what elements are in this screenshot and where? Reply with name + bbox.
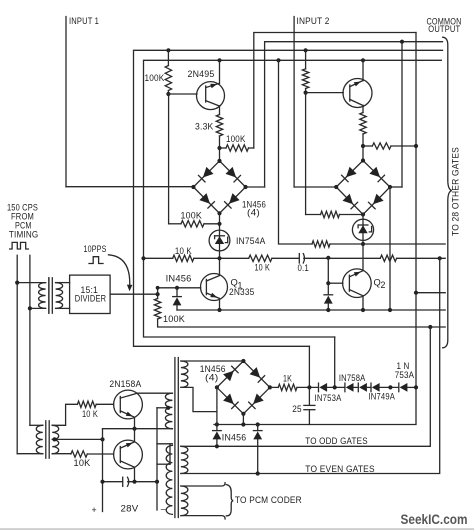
wire to even gates line — [181, 258, 440, 473]
wire emitter return line y=481.7 — [103, 481, 123, 483]
wire Q4 emitter down — [134, 467, 136, 481]
wire Q2 collector down to bus310 — [362, 296, 364, 310]
wire drop bus41 to bridge2 right vertex — [401, 42, 403, 187]
wire Q1 emitter to bus310 — [219, 299, 221, 310]
winding T4 primary left — [166, 445, 172, 514]
wire Q2 emitter up to bus244 — [362, 244, 364, 271]
wire INPUT 2 horizontal to bridge — [294, 186, 336, 188]
resistor collector load T2 — [360, 113, 366, 135]
diode bridge2 top-left — [346, 167, 357, 178]
junction bus41/x402 — [400, 40, 404, 44]
wire bus y=50.3 base resistors, left corner down to y=346 — [134, 50, 443, 346]
diode 1N456 to odd gates — [216, 425, 218, 431]
wire Q2 base drop from bus258 — [327, 258, 329, 295]
winding secondary to bridge3 — [181, 361, 188, 387]
svg-text:10 K: 10 K — [255, 263, 271, 273]
diode bridge 2 quad edges — [336, 161, 390, 215]
diode 1N456 at Q2 base — [324, 294, 333, 296]
winding to pcm coder — [181, 486, 188, 516]
wire Q2 base line — [328, 282, 343, 284]
wire Q3 collector to winding top — [137, 392, 173, 394]
wire Q3 emitter down — [134, 417, 136, 428]
wire Q4 collector up — [134, 429, 136, 442]
wire secondary bottom to 10K — [52, 453, 71, 455]
svg-text:2N158A: 2N158A — [109, 379, 141, 389]
junction bus50/100K-1 — [166, 48, 170, 52]
svg-text:2: 2 — [381, 280, 386, 290]
diode IN758A pair a — [346, 383, 354, 392]
junction Q4 emitter on return — [132, 480, 136, 484]
junction base node T1 — [166, 92, 170, 96]
resistor 10K left on bus258 — [173, 255, 194, 261]
transistor 2N495 T1 left — [197, 82, 225, 110]
diode IN758A pair b — [359, 383, 367, 392]
wire bus y=244 zener return — [279, 60, 313, 244]
svg-text:10PPS: 10PPS — [84, 244, 107, 254]
svg-text:TO PCM CODER: TO PCM CODER — [235, 495, 302, 505]
resistor 100K bridge1 bottom from base node — [168, 94, 170, 224]
capacitor 28V filter — [122, 477, 124, 486]
wire secondary center tap to + rail — [52, 438, 102, 440]
symbol pulse 10pps — [89, 257, 103, 264]
svg-text:IN753A: IN753A — [315, 393, 342, 403]
diode bridge2 bottom-right — [373, 194, 384, 205]
wire pcm bottom with hook — [181, 516, 225, 519]
junction even/diode — [256, 471, 260, 475]
border bottom scan line — [0, 528, 474, 529]
wire to odd gates line — [181, 327, 430, 446]
transistor Q1 2N335 — [201, 274, 228, 301]
diode 1N456 to even gates — [257, 425, 259, 431]
svg-text:DIVIDER: DIVIDER — [75, 294, 107, 304]
diode bridge1 top-right — [226, 167, 237, 178]
resistor 10K Q4 base — [71, 451, 87, 457]
svg-text:10 K: 10 K — [175, 246, 192, 256]
junction zener1/Q1 collector — [217, 256, 221, 260]
wire base riser and base line Q1 — [158, 288, 201, 294]
wire brace to 28 other gates — [443, 37, 452, 348]
wire T1 emitter up to bus60 — [219, 60, 221, 83]
junction bus258/Q2 base drop — [326, 256, 330, 260]
wire bus y=346 drop x=309 to diode chain — [308, 346, 310, 387]
wire common output stub y=292.7 — [416, 292, 445, 294]
wire bus y=337 drop x=334.7 — [334, 337, 336, 387]
resistor 100K below divider node — [157, 294, 159, 298]
wire winding tap step — [157, 407, 169, 409]
junction chain end x416 — [414, 385, 418, 389]
junction T2 collector node — [361, 144, 365, 148]
wire divider output to base network — [110, 293, 158, 295]
junction base line / diode — [175, 286, 179, 290]
wire bridge3 bottom vertex down to bus425 — [242, 414, 244, 425]
resistor 10K second on bus258 — [249, 255, 272, 261]
svg-text:0.1: 0.1 — [298, 263, 310, 273]
wire base T1 — [168, 93, 197, 95]
svg-text:IN456: IN456 — [166, 273, 192, 283]
capacitor 0.1 — [298, 254, 300, 263]
svg-text:(4): (4) — [247, 208, 260, 218]
transistor 2N495 T2 right — [343, 79, 372, 108]
diode 1N753A right — [400, 383, 408, 392]
junction odd/diode — [215, 444, 219, 448]
diode bridge 3 rectifier edges — [217, 361, 270, 414]
transistor Q4 2N158A lower — [114, 440, 143, 469]
wire bridge2 right vertex down to bus310 — [389, 187, 391, 310]
svg-text:IN754A: IN754A — [236, 236, 266, 246]
junction bus327/odd drop — [428, 325, 432, 329]
wire base T2 — [306, 92, 344, 94]
junction chain x334.7 — [333, 385, 337, 389]
svg-text:10 K: 10 K — [82, 409, 98, 419]
wire T1 collector down — [219, 106, 221, 115]
wire winding bottom line — [103, 428, 173, 430]
junction bus258/even drop — [438, 256, 442, 260]
svg-text:TIMING: TIMING — [9, 229, 39, 239]
junction bus60/T1 emitter — [217, 58, 221, 62]
svg-text:100K: 100K — [226, 134, 246, 144]
junction bus60/T2 emitter — [361, 58, 365, 62]
junction bus310 base diode right — [326, 308, 330, 312]
junction bridge3 vertices — [241, 359, 245, 363]
svg-text:TO 28 OTHER GATES: TO 28 OTHER GATES — [451, 147, 461, 236]
box 15:1 DIVIDER — [70, 275, 111, 313]
zener diode 1N754A in circle — [219, 213, 221, 258]
resistor 100K R1 base left cell — [167, 50, 169, 65]
svg-text:+: + — [92, 505, 97, 515]
wire vertical x=416 common rail down to diode chain and bottom bus corner — [214, 33, 416, 425]
resistor 100K bridge2 bottom — [306, 214, 321, 216]
svg-text:–: – — [161, 504, 166, 514]
junction chain x309.4 — [307, 385, 311, 389]
wire pcm top with hook — [181, 483, 225, 486]
transformer T1 input — [17, 282, 45, 284]
diode bridge3 bottom-right — [253, 394, 264, 405]
diode bridge1 bottom-left — [199, 193, 210, 204]
wire + rail — [102, 429, 104, 512]
wire pcm brace — [226, 485, 233, 516]
resistor 100K collector load left — [220, 147, 227, 149]
wire winding top to bridge3 top vertex — [181, 360, 244, 362]
junction divider output node — [156, 292, 160, 296]
wire bus y=310 — [177, 309, 445, 311]
svg-text:2N335: 2N335 — [229, 287, 255, 297]
resistor 3.3K — [216, 115, 222, 137]
diode bridge3 bottom-left — [223, 394, 234, 405]
junction return / minus rail — [155, 480, 159, 484]
svg-text:753A: 753A — [395, 370, 415, 380]
transistor Q3 2N158A upper — [114, 390, 143, 419]
wire bus y=60.3 emitters, left corner down with branches — [144, 60, 442, 337]
wire T2 collector down — [362, 105, 364, 112]
resistor 100K right cell vertical — [305, 50, 307, 69]
svg-text:IN456: IN456 — [222, 432, 247, 442]
svg-text:10K: 10K — [74, 458, 91, 468]
junction zener2 bottom on bus244 — [361, 242, 365, 246]
junction bus425 nodes — [215, 422, 219, 426]
zener diode 1N754A right in circle — [362, 215, 364, 245]
svg-text:SeekIC.com: SeekIC.com — [401, 512, 468, 527]
winding T3 primary left — [165, 393, 172, 429]
junction bus258 start — [141, 256, 145, 260]
svg-text:100K: 100K — [163, 314, 185, 324]
svg-text:IN749A: IN749A — [369, 392, 396, 402]
resistor 10K to common rail — [363, 145, 372, 147]
junction rail x416 y292.7 — [414, 291, 418, 295]
transistor Q2 — [343, 269, 372, 298]
svg-text:TO EVEN GATES: TO EVEN GATES — [305, 464, 375, 474]
diode bridge1 bottom-right — [229, 193, 240, 204]
svg-text:3.3K: 3.3K — [195, 122, 214, 132]
wire INPUT 2 vertical — [293, 17, 295, 188]
svg-text:OUTPUT: OUTPUT — [428, 24, 460, 34]
resistor unlabeled on bus258 right — [380, 255, 396, 261]
diode 1N456 at Q1 base — [176, 288, 178, 297]
diode IN753A — [319, 383, 327, 392]
wire bus y=41.7 bridge right vertices — [265, 42, 443, 187]
diode bridge1 top-left — [203, 167, 214, 178]
svg-text:100K: 100K — [181, 211, 203, 221]
junction chain x390.4 — [388, 385, 392, 389]
junction Q3 emitter node — [132, 427, 136, 431]
diode bridge2 top-right — [369, 167, 380, 178]
svg-text:(4): (4) — [205, 373, 219, 383]
resistor 10K Q3 base — [77, 401, 96, 407]
transformer T2 drive — [30, 424, 43, 426]
resistor 1K — [270, 386, 278, 388]
diode bridge3 top-right — [250, 367, 261, 378]
wire INPUT 1 horizontal to bridge — [66, 186, 193, 188]
wire bridge1 right vertex to bus41 drop — [246, 186, 265, 188]
svg-text:2N495: 2N495 — [188, 69, 215, 79]
svg-text:IN758A: IN758A — [339, 373, 366, 383]
junction bridge2 vertices — [361, 158, 365, 162]
diode IN749A — [372, 383, 380, 392]
wire timing pair verticals — [16, 255, 18, 453]
transformer core T3/T4 — [174, 358, 176, 518]
diode bridge3 top-left — [223, 371, 234, 382]
junction bus50/right-100K — [304, 48, 308, 52]
svg-text:INPUT 1: INPUT 1 — [69, 16, 99, 26]
wire curved arrow 10pps to divider output — [109, 255, 130, 286]
wire bus collector-loads y=32.5 with left drop to 100K and right drop x=416 — [254, 33, 416, 149]
junction bridge1 vertices — [217, 159, 221, 163]
svg-text:25: 25 — [292, 404, 302, 414]
junction bus310 bridge2 drop — [388, 308, 392, 312]
diode bridge2 bottom-left — [343, 194, 354, 205]
svg-text:TO ODD GATES: TO ODD GATES — [305, 436, 368, 446]
junction base node T2 — [304, 91, 308, 95]
junction Q2 base tee — [326, 281, 330, 285]
symbol square wave 150cps — [10, 242, 29, 249]
junction 100K/zener rail — [217, 222, 221, 226]
junction bus310 Q2 collector — [361, 308, 365, 312]
wire bus y=258 10K chain — [144, 257, 173, 259]
wire bridge3 left vertex down to bus425 — [216, 387, 218, 424]
winding odd/even gates — [181, 446, 188, 473]
diode bridge 1 quad 1N456(4) edges — [193, 161, 245, 213]
junction collector/100K feed — [217, 146, 221, 150]
junction bus60/zener-bus drop — [276, 58, 280, 62]
svg-text:100K: 100K — [145, 73, 165, 83]
capacitor 25 — [308, 387, 310, 405]
wire bridge2 right vertex stub — [390, 186, 402, 188]
svg-text:28V: 28V — [121, 504, 139, 514]
svg-text:INPUT 2: INPUT 2 — [297, 16, 330, 26]
junction bus310 Q1 emitter — [217, 308, 221, 312]
wire Q1 collector to bus258 — [219, 258, 221, 275]
wire INPUT 1 vertical — [65, 17, 67, 187]
wire T2 emitter up to bus60 — [362, 60, 364, 80]
wire secondary top to 10K — [52, 404, 77, 425]
svg-text:1K: 1K — [283, 373, 292, 383]
wire right cell vertical continues to bridge2 bottom resistor — [305, 93, 307, 215]
junction rail x416 y146 — [414, 144, 418, 148]
wire winding bottom step to bridge3 left drop — [181, 387, 217, 411]
